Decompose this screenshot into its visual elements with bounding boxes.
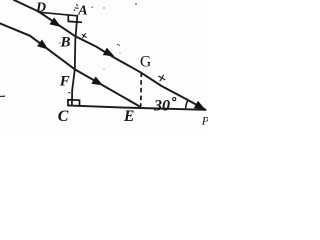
right angle mark at C (small square straddling vertical) [68, 100, 80, 107]
svg-text:C: C [58, 108, 69, 125]
speck dot far top left area [103, 7, 104, 8]
tick mark x on ray near B [82, 33, 87, 38]
wire main ray D-B-G-P (transversal / hypotenuse) [39, 12, 206, 110]
svg-text:D: D [35, 0, 46, 15]
speck dot top middle [135, 3, 137, 5]
svg-text:30: 30 [153, 98, 170, 115]
wire bottom side C-E-P [68, 105, 206, 109]
degree symbol [173, 98, 176, 101]
small noise mark above A [75, 4, 79, 8]
small dash at left edge [0, 95, 5, 97]
svg-text:P: P [201, 114, 208, 128]
svg-text:G: G [140, 54, 151, 71]
arrow on ray2 upper [37, 40, 48, 50]
wire vertical side A-B-F-C [72, 16, 77, 106]
arrow on ray1 middle (B-G) [103, 48, 115, 57]
speck dot mid field 1 [103, 68, 104, 69]
svg-text:F: F [59, 74, 70, 90]
wire ray 2 through F ending at E [0, 23, 140, 106]
speck dot near ray2 [59, 42, 60, 43]
arrow at P tip [194, 101, 206, 110]
nub on vertical line [68, 92, 70, 94]
speck mark right of arrow2 [117, 44, 120, 45]
tick mark x on ray near G [158, 75, 165, 82]
wire lead-in at top-left to D [14, 0, 39, 12]
wire dashed G-E vertical [140, 73, 143, 107]
angle arc 30 deg at P [186, 100, 188, 108]
arrow on ray2 lower [91, 76, 103, 85]
arrow on ray1 upper (D-B) [50, 17, 62, 27]
speck dot mid field 2 [119, 52, 120, 53]
right angle mark at A [68, 15, 82, 23]
speck dot right of A [91, 6, 93, 8]
svg-text:A: A [77, 3, 87, 18]
svg-text:E: E [123, 108, 134, 125]
wire segment D to A (top, nearly horizontal) [39, 12, 78, 16]
svg-text:B: B [60, 35, 71, 51]
